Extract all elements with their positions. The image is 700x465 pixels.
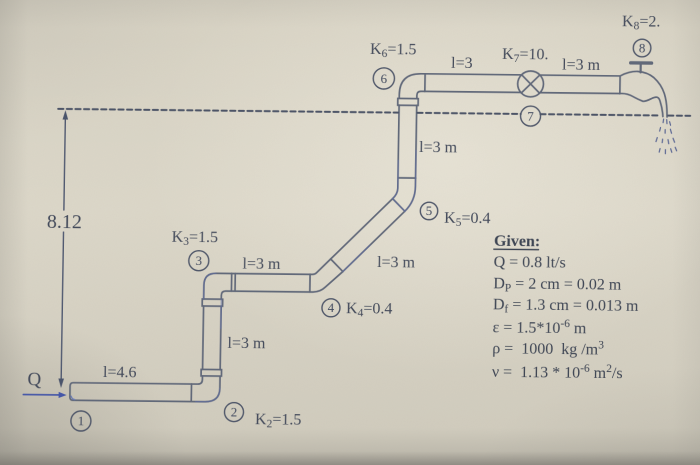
pipe segment l=3 m (node3 to node4, horizontal) bbox=[231, 274, 310, 292]
node 7 bbox=[520, 106, 540, 126]
flow arrow Q bbox=[23, 394, 59, 396]
elbow node 5 bbox=[392, 178, 415, 212]
valve K7 (gate valve circle-X) bbox=[517, 71, 543, 97]
pipe segment l=3 m (node5 to node6, vertical) bbox=[398, 105, 417, 178]
free surface dashed line bbox=[58, 109, 690, 116]
blue trace accents bbox=[196, 148, 416, 404]
elbow node 2 bbox=[191, 376, 220, 402]
node 4 bbox=[322, 299, 340, 317]
coupling below node 6 elbow bbox=[398, 98, 419, 105]
faucet handle T-bar bbox=[631, 61, 652, 65]
joint at node 5 top bbox=[398, 177, 416, 179]
elbow node 4 bbox=[310, 259, 343, 293]
node 3 bbox=[189, 251, 209, 271]
node 8 bbox=[633, 39, 651, 57]
node 2 bbox=[224, 402, 243, 421]
pipe segment l=4.6 (node1 to node2) bbox=[70, 383, 192, 402]
node numerals bbox=[78, 34, 646, 434]
water drops from faucet bbox=[656, 119, 677, 154]
joint on diagonal upper end bbox=[392, 199, 405, 212]
joint at node 2 bbox=[190, 384, 192, 402]
elbow node 6 bbox=[399, 74, 425, 99]
faucet valve stem bbox=[639, 63, 641, 72]
inlet opening tick bbox=[71, 396, 75, 399]
coupling below node 3 elbow bbox=[202, 299, 223, 306]
node 6 bbox=[373, 68, 395, 89]
elbow node 3 bbox=[204, 273, 232, 299]
pipe segment l=3 m (valve K7 to faucet) bbox=[540, 75, 620, 93]
joint at node 4 bbox=[309, 274, 311, 292]
node 1 bbox=[71, 33, 651, 437]
joint right of node 6 bbox=[424, 74, 426, 92]
node 5 bbox=[420, 202, 438, 220]
coupling at node 2 top bbox=[201, 369, 222, 376]
joint right of node 3 bbox=[231, 274, 235, 292]
dimension line 8.12 bbox=[61, 116, 65, 380]
joint on diagonal lower end bbox=[330, 259, 343, 272]
faucet body (node 8 tap) bbox=[619, 71, 667, 117]
pipe segment l=3 m (diagonal node4 to node5) bbox=[330, 198, 405, 272]
pipe segment l=3 m (node2 to node3, vertical) bbox=[203, 306, 222, 370]
pipe segment l=3 (node6 to valve K7) bbox=[425, 74, 522, 93]
joint at faucet inlet bbox=[619, 76, 621, 94]
